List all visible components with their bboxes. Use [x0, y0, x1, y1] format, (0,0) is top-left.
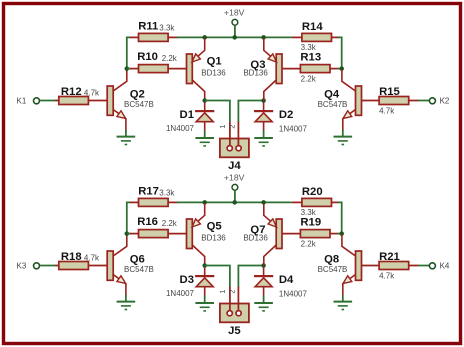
svg-text:2.2k: 2.2k: [162, 54, 178, 63]
terminal K2: [429, 97, 450, 106]
resistor R21 4.7k: [362, 251, 419, 280]
svg-text:D2: D2: [279, 109, 293, 121]
svg-text:4.7k: 4.7k: [379, 107, 395, 116]
svg-text:2: 2: [227, 290, 236, 294]
diode D3 1N4007: [166, 268, 214, 299]
svg-text:K1: K1: [17, 97, 27, 106]
wire: [127, 68, 131, 70]
node rail junctions: [202, 35, 265, 40]
wire: [205, 266, 230, 288]
diode D1 1N4007: [166, 103, 214, 134]
svg-text:R18: R18: [61, 251, 82, 263]
svg-text:K3: K3: [17, 262, 27, 271]
transistor Q6 BC547B: [107, 234, 154, 296]
ground: [195, 138, 214, 146]
transistor Q7 BD136: [243, 203, 282, 266]
transistor Q4 BC547B: [318, 69, 362, 130]
svg-text:K2: K2: [440, 97, 450, 106]
transistor Q5 BD136: [187, 203, 227, 266]
power +18V: [224, 173, 245, 203]
svg-text:R12: R12: [61, 86, 82, 98]
wire: [418, 265, 429, 267]
node D3 junction: [202, 263, 207, 268]
svg-text:R11: R11: [138, 21, 158, 33]
transistor Q2 BC547B: [107, 69, 154, 130]
node rail junctions: [202, 200, 265, 205]
svg-text:2.2k: 2.2k: [162, 219, 178, 228]
resistor R12 4.7k: [56, 86, 108, 105]
resistor R15 4.7k: [362, 86, 419, 115]
transistor Q1 BD136: [187, 38, 227, 101]
wire: [204, 130, 206, 137]
svg-text:3.3k: 3.3k: [301, 43, 317, 52]
svg-text:Q1: Q1: [207, 55, 222, 67]
svg-text:R17: R17: [138, 186, 159, 198]
terminal K3: [17, 262, 40, 271]
svg-text:D3: D3: [180, 274, 194, 286]
wire: [127, 37, 131, 69]
svg-text:Q6: Q6: [130, 254, 145, 266]
wire: [338, 202, 342, 233]
resistor R10 2.2k: [130, 51, 187, 72]
node R16/Q6 junction: [125, 231, 130, 236]
wire: [238, 101, 263, 123]
resistor R17 3.3k: [130, 186, 178, 207]
wire: [263, 130, 265, 137]
node R10/Q2 junction: [125, 66, 130, 71]
ground: [334, 137, 353, 145]
svg-text:1N4007: 1N4007: [279, 124, 308, 133]
wire +18V rail: [177, 36, 292, 38]
svg-text:BC547B: BC547B: [124, 100, 154, 109]
resistor R20 3.3k: [292, 186, 339, 217]
node R19/R20 junction: [339, 231, 344, 236]
wire: [40, 265, 56, 267]
wire: [418, 100, 429, 102]
diode D4 1N4007: [254, 268, 307, 299]
wire: [127, 233, 131, 235]
wire: [338, 37, 342, 68]
power +18V: [224, 8, 245, 38]
svg-text:BC547B: BC547B: [318, 100, 348, 109]
ground: [254, 303, 273, 311]
svg-text:3.3k: 3.3k: [159, 23, 175, 32]
terminal K1: [17, 97, 40, 106]
svg-text:R20: R20: [302, 186, 323, 198]
wire: [342, 130, 344, 136]
wire: [263, 295, 265, 302]
svg-text:Q5: Q5: [207, 220, 222, 232]
svg-text:BC547B: BC547B: [124, 265, 154, 274]
svg-text:BD136: BD136: [201, 69, 226, 78]
node D4 junction: [261, 263, 266, 268]
svg-text:BC547B: BC547B: [318, 265, 348, 274]
svg-text:+18V: +18V: [224, 8, 245, 18]
svg-text:R14: R14: [302, 21, 323, 33]
svg-text:D1: D1: [180, 109, 194, 121]
wire: [204, 295, 206, 302]
resistor R18 4.7k: [56, 251, 108, 270]
svg-text:2.2k: 2.2k: [301, 239, 317, 248]
wire: [40, 100, 56, 102]
ground: [254, 138, 273, 146]
diode D2 1N4007: [254, 103, 307, 134]
wire: [125, 295, 127, 301]
svg-text:3.3k: 3.3k: [301, 208, 317, 217]
transistor Q8 BC547B: [318, 234, 362, 296]
svg-text:R19: R19: [300, 216, 321, 228]
svg-text:+18V: +18V: [224, 173, 245, 183]
svg-text:R13: R13: [300, 51, 321, 63]
wire: [125, 130, 127, 136]
wire: [205, 101, 230, 123]
svg-text:D4: D4: [279, 274, 294, 286]
svg-text:3.3k: 3.3k: [159, 188, 175, 197]
wire: [342, 295, 344, 301]
svg-text:2.2k: 2.2k: [301, 74, 317, 83]
svg-text:Q8: Q8: [324, 254, 339, 266]
wire: [238, 266, 263, 288]
svg-text:J5: J5: [228, 325, 241, 337]
svg-text:1: 1: [218, 290, 227, 294]
node D1 junction: [202, 98, 207, 103]
wire: [127, 202, 131, 234]
svg-text:4.7k: 4.7k: [84, 89, 100, 98]
svg-text:Q2: Q2: [130, 89, 145, 101]
node R13/R14 junction: [339, 66, 344, 71]
resistor R14 3.3k: [292, 21, 339, 52]
svg-text:BD136: BD136: [201, 234, 226, 243]
ground: [195, 303, 214, 311]
resistor R19 2.2k: [282, 216, 339, 248]
resistor R13 2.2k: [282, 51, 339, 83]
ground: [117, 302, 136, 310]
transistor Q3 BD136: [243, 38, 282, 101]
wire +18V rail: [177, 201, 292, 203]
svg-text:BD136: BD136: [243, 234, 268, 243]
svg-text:1N4007: 1N4007: [279, 289, 308, 298]
svg-text:1: 1: [218, 125, 227, 129]
svg-text:Q4: Q4: [324, 89, 340, 101]
resistor R16 2.2k: [130, 216, 187, 237]
svg-text:1N4007: 1N4007: [166, 289, 195, 298]
node D2 junction: [261, 98, 266, 103]
svg-text:J4: J4: [228, 160, 241, 172]
svg-text:K4: K4: [440, 262, 450, 271]
ground: [117, 137, 136, 145]
svg-text:R16: R16: [137, 216, 158, 228]
svg-text:2: 2: [227, 125, 236, 129]
svg-text:R10: R10: [137, 51, 158, 63]
resistor R11 3.3k: [130, 21, 178, 42]
connector J5: [218, 287, 249, 338]
svg-text:4.7k: 4.7k: [84, 254, 100, 263]
connector J4: [218, 122, 249, 173]
terminal K4: [429, 262, 450, 271]
svg-text:R15: R15: [379, 86, 400, 98]
ground: [334, 302, 353, 310]
svg-text:R21: R21: [379, 251, 400, 263]
svg-text:BD136: BD136: [243, 69, 268, 78]
svg-text:1N4007: 1N4007: [166, 124, 195, 133]
svg-text:4.7k: 4.7k: [379, 272, 395, 281]
